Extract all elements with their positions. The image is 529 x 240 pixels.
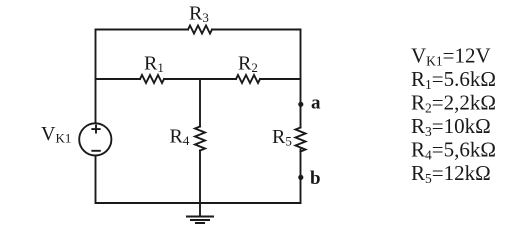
svg-text:R3: R3 (189, 3, 209, 26)
resistor R1 (140, 75, 164, 83)
minus sign inside source (92, 150, 100, 152)
resistor R2 (236, 75, 260, 83)
svg-text:R4: R4 (170, 126, 190, 149)
svg-text:R2=2,2kΩ: R2=2,2kΩ (411, 91, 496, 116)
voltage source V_K1 circle (79, 123, 111, 155)
svg-text:R2: R2 (238, 53, 258, 76)
svg-text:R1: R1 (144, 53, 164, 76)
wire middle rail: R2 to right vertical (260, 78, 301, 80)
node a (298, 102, 303, 107)
resistor R5 (296, 128, 306, 152)
wire middle rail: left to R1 (96, 78, 141, 80)
resistor R4 (195, 127, 205, 151)
svg-text:R4=5,6kΩ: R4=5,6kΩ (411, 138, 496, 163)
svg-text:a: a (311, 93, 321, 114)
svg-text:R5=12kΩ: R5=12kΩ (411, 161, 491, 186)
ground (187, 217, 213, 224)
svg-text:R1=5.6kΩ: R1=5.6kΩ (411, 67, 496, 92)
svg-text:R3=10kΩ: R3=10kΩ (411, 114, 491, 139)
wire right vertical lower (300, 150, 302, 204)
wire middle rail: R1 to R2 (164, 78, 236, 80)
wire top rail left segment (96, 29, 189, 31)
svg-text:R5: R5 (272, 126, 292, 149)
wire bottom rail (96, 202, 301, 204)
node b (298, 175, 303, 180)
wire right vertical upper (300, 30, 302, 128)
wire R4 branch upper (199, 79, 201, 127)
wire R4 branch lower (199, 151, 201, 204)
wire left vertical lower (95, 156, 97, 203)
wire left vertical upper (95, 30, 97, 123)
resistor R3 (188, 26, 212, 34)
svg-text:VK1: VK1 (41, 123, 71, 146)
wire top rail right segment (212, 29, 301, 31)
svg-text:b: b (310, 168, 321, 189)
plus sign inside source (92, 126, 99, 133)
svg-text:VK1=12V: VK1=12V (411, 44, 491, 69)
wire ground stub (199, 203, 201, 217)
